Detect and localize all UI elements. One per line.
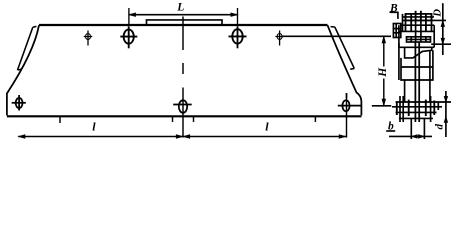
plate section — [401, 24, 434, 26]
b dimension — [410, 119, 412, 140]
tick marks on bottom edge — [60, 116, 315, 124]
svg-text:d: d — [433, 124, 445, 130]
washer line — [403, 19, 446, 21]
left protrusion — [393, 24, 400, 38]
bottom hole left — [12, 95, 26, 111]
small hole marker right — [275, 31, 283, 46]
label H (rotated) — [377, 67, 389, 78]
svg-text:D: D — [433, 9, 444, 18]
top hole left (ellipse with crosshair) — [120, 26, 137, 48]
B underline — [390, 11, 399, 13]
H dimension top extension line — [282, 35, 391, 37]
svg-text:L: L — [176, 2, 184, 14]
svg-text:H: H — [377, 67, 389, 78]
dimension L extension lines — [129, 8, 238, 26]
bottom assembly verticals — [396, 102, 398, 115]
svg-text:l: l — [92, 119, 96, 133]
web outline — [405, 47, 432, 58]
bottom hole right — [338, 93, 361, 111]
D dimension line — [442, 3, 444, 55]
top nut — [406, 14, 432, 21]
top hole right (ellipse with crosshair) — [229, 26, 247, 48]
b underline — [386, 130, 395, 132]
bottom hole middle — [173, 100, 192, 113]
small hole marker left — [84, 31, 92, 46]
dimension L line with arrows — [129, 13, 238, 17]
web verticals to bottom — [401, 66, 433, 68]
bolt shank — [415, 20, 417, 42]
right hole centre line — [346, 98, 348, 138]
svg-text:l: l — [265, 119, 269, 133]
T head — [407, 37, 431, 42]
body outline front view — [39, 24, 328, 26]
label d rotated — [433, 124, 445, 130]
H dimension bottom extension line — [372, 105, 392, 107]
right slanted strip — [331, 27, 355, 70]
top plate — [147, 20, 223, 26]
left slanted strip — [18, 26, 37, 70]
centre line (dash-dot) middle — [182, 17, 184, 138]
bottom assembly horizontals — [396, 101, 451, 103]
H dimension line with arrows — [382, 36, 386, 106]
bottom dimension line l + l — [18, 135, 346, 139]
d dimension — [445, 91, 447, 137]
label D rotated — [433, 9, 444, 18]
